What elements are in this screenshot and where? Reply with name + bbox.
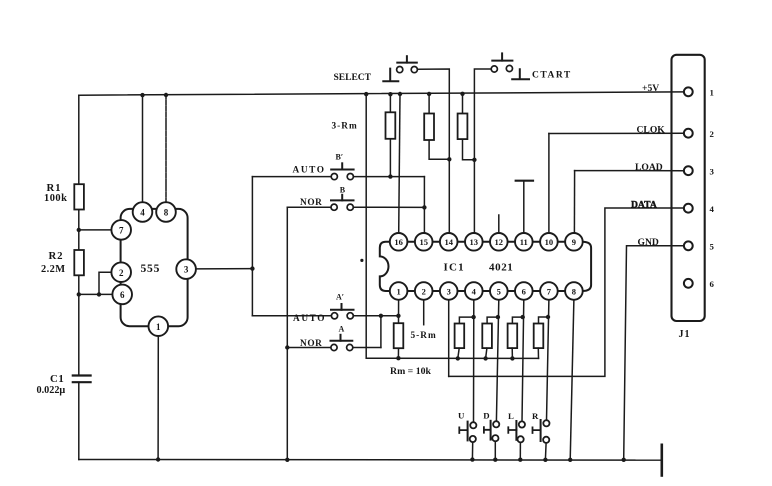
pushbutton SELECT (334, 56, 418, 83)
IC1 pin 9 (LOAD) (565, 171, 583, 251)
resistor R2 (74, 250, 84, 275)
node long vertical at rail (364, 92, 368, 96)
svg-text:NOR: NOR (300, 198, 322, 208)
pushbutton CTART (start) (491, 53, 572, 80)
svg-text:8: 8 (164, 208, 169, 218)
555 pin 3 (176, 259, 252, 279)
node B join (422, 205, 426, 209)
resistor 5-Rm #3 (pin 5) (482, 315, 500, 361)
connector J1 body (672, 55, 705, 321)
555 pin 6 (79, 285, 132, 305)
svg-text:L: L (508, 411, 514, 421)
IC1 pin 13 (465, 233, 483, 251)
svg-text:2: 2 (422, 286, 426, 296)
node NOR-A tap (285, 345, 289, 349)
svg-text:3-Rm: 3-Rm (332, 121, 358, 131)
svg-text:555: 555 (141, 263, 161, 275)
svg-text:AUTO: AUTO (293, 314, 326, 324)
switch NOR A (lower) (287, 324, 381, 350)
555 pin 7 (79, 220, 131, 240)
svg-text:3: 3 (447, 286, 451, 296)
pushbutton U (458, 411, 476, 462)
svg-text:11: 11 (520, 237, 528, 247)
svg-text:5-Rm: 5-Rm (411, 331, 437, 341)
svg-text:12: 12 (495, 237, 504, 247)
svg-text:16: 16 (394, 237, 403, 247)
wire B switches to IC pin 15 (423, 177, 425, 234)
resistor R1 (74, 184, 84, 209)
wire +5V top rail (79, 92, 684, 95)
svg-text:1: 1 (156, 322, 161, 332)
svg-text:DATA: DATA (631, 199, 657, 210)
resistor 5-Rm #2 (pin 4) (455, 315, 476, 361)
resistor 5-Rm #4 (pin 6) (508, 315, 525, 361)
555 pin 8 (156, 93, 176, 222)
svg-text:A′: A′ (336, 293, 344, 302)
IC1 pin 4 (465, 282, 483, 422)
wire 555 output vertical (pin3 node to AUTO rows) (251, 177, 253, 316)
svg-text:100k: 100k (44, 193, 67, 204)
IC1 pin 5 (490, 282, 508, 421)
svg-text:7: 7 (119, 226, 124, 236)
node: pin7 junction on left rail (77, 228, 81, 232)
pushbutton D (483, 411, 499, 462)
svg-text:6: 6 (120, 290, 125, 300)
pushbutton R (532, 411, 550, 462)
J1 pin 4 (DATA) (631, 199, 715, 214)
svg-text:Rm = 10k: Rm = 10k (390, 366, 432, 377)
svg-text:9: 9 (572, 237, 576, 247)
J1 pin 2 (CLOK) (549, 125, 715, 139)
IC1 pin 11 with termination bar (515, 181, 533, 251)
resistor Rb (3-Rm #2) (424, 92, 449, 160)
svg-text:2: 2 (119, 268, 124, 278)
wire long vertical rail to resistor-common row (366, 94, 538, 358)
IC1 pin 2 (stub) (415, 282, 433, 325)
wire SELECT to IC pin 14 (417, 69, 449, 233)
svg-text:2: 2 (710, 129, 715, 139)
svg-text:1: 1 (710, 87, 714, 97)
svg-text:8: 8 (572, 286, 576, 296)
wire bottom ground rail (79, 459, 662, 462)
IC1 pin 8 (to ground) (565, 282, 583, 462)
svg-text:C1: C1 (50, 373, 64, 385)
svg-text:A: A (339, 324, 345, 333)
switch NOR B (upper) (287, 185, 424, 210)
ground rail end bar (660, 445, 663, 476)
svg-text:6: 6 (522, 286, 526, 296)
svg-text:1: 1 (396, 286, 400, 296)
pushbutton L (508, 411, 525, 462)
J1 pin 3 (LOAD) (575, 162, 715, 176)
IC1 pin 1 (390, 282, 408, 323)
switch AUTO A' (lower) (252, 293, 398, 324)
svg-text:R2: R2 (49, 250, 64, 262)
svg-text:D: D (483, 411, 489, 421)
svg-text:LOAD: LOAD (635, 162, 663, 173)
svg-text:B: B (340, 185, 346, 194)
svg-text:0.022μ: 0.022μ (37, 385, 66, 396)
svg-text:B′: B′ (336, 152, 344, 161)
555 pin 2 (99, 262, 131, 294)
J1 pin 5 (GND) (622, 237, 715, 462)
switch AUTO B' (upper) (252, 152, 424, 179)
wire A switches join (380, 316, 382, 348)
node NOR common at ground rail (285, 458, 289, 462)
svg-text:R: R (532, 411, 539, 421)
IC1 pin 3 (DATA out) (440, 282, 458, 376)
IC1 pin 6 (515, 282, 533, 421)
node A' row to pin1 wire (396, 314, 400, 318)
wire CTART to IC pin 13 (474, 69, 491, 233)
svg-text:U: U (458, 411, 465, 421)
svg-text:CTART: CTART (532, 71, 572, 81)
svg-text:3: 3 (710, 166, 715, 176)
svg-text:SELECT: SELECT (334, 73, 372, 83)
resistor 5-Rm #1 (pin 1) (394, 323, 404, 360)
resistor 5-Rm #5 (pin 7) (534, 315, 551, 359)
svg-text:GND: GND (638, 237, 659, 248)
IC1 pin 16 (390, 233, 408, 251)
svg-text:10: 10 (545, 237, 554, 247)
wire +5V to IC pin 16 (399, 94, 400, 233)
resistor Ra (3-Rm #1) (386, 92, 396, 179)
resistor Rc (3-Rm #3) (458, 92, 475, 160)
capacitor C1 (73, 376, 91, 383)
wire DATA run (IC pin3 to J1 pin4) (449, 208, 684, 376)
svg-text:4: 4 (140, 208, 145, 218)
svg-text:+5V: +5V (642, 83, 659, 94)
node R-c bottom join (472, 158, 476, 162)
J1 pin 1 (+5V) (642, 83, 714, 97)
svg-text:NOR: NOR (300, 339, 322, 349)
svg-text:2.2M: 2.2M (41, 264, 65, 275)
IC1 pin 14 (440, 233, 458, 251)
svg-text:7: 7 (547, 286, 552, 296)
svg-text:4: 4 (472, 286, 477, 296)
IC1 4021 body (380, 242, 591, 291)
svg-text:6: 6 (710, 279, 715, 289)
node pin16 at rail (398, 92, 402, 96)
svg-text:14: 14 (444, 237, 453, 247)
node: pin2/6 junction on left rail (77, 292, 81, 296)
svg-text:15: 15 (419, 237, 428, 247)
IC1 pin 7 (540, 282, 558, 420)
svg-text:J1: J1 (679, 329, 691, 340)
IC1 pin 12 (490, 215, 508, 251)
J1 pin 6 (684, 279, 715, 289)
555 pin 4 (133, 93, 153, 222)
svg-text:5: 5 (710, 241, 715, 251)
node A join (379, 314, 383, 318)
node pin3 output junction (250, 266, 254, 270)
svg-text:4021: 4021 (489, 262, 513, 274)
svg-text:4: 4 (710, 204, 715, 214)
svg-text:13: 13 (470, 237, 479, 247)
svg-text:3: 3 (184, 265, 189, 275)
wire left vertical rail (R1/R2/C1 branch) (78, 95, 80, 459)
IC1 pin 15 (415, 233, 433, 251)
svg-text:AUTO: AUTO (293, 166, 326, 176)
svg-text:CLOK: CLOK (637, 125, 666, 136)
node R-b bottom join (447, 157, 451, 161)
stray scan dot near IC notch (360, 259, 363, 262)
IC1 pin 10 (CLOK) (540, 134, 558, 251)
svg-text:5: 5 (497, 286, 501, 296)
555 pin 1 (149, 316, 169, 461)
timer IC 555 body (121, 209, 188, 326)
wire NOR common vertical to ground rail (286, 207, 288, 460)
svg-text:IC1: IC1 (444, 262, 465, 274)
